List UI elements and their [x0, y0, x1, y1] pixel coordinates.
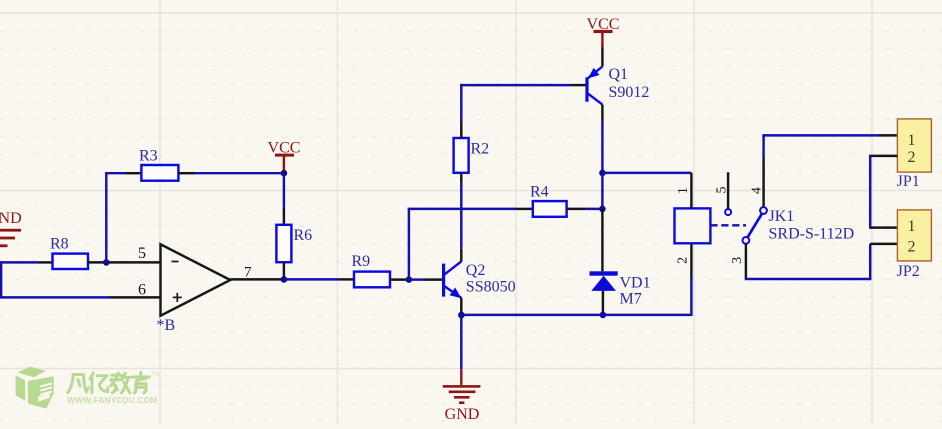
wire R4 right	[567, 208, 585, 210]
wire pin3 to JP2	[745, 278, 870, 280]
wire Q2 emitter to GND	[460, 315, 462, 369]
junction R4 node	[599, 206, 606, 213]
wire R8 to opamp	[88, 261, 161, 263]
wire top input to R8	[0, 261, 38, 263]
svg-text:WWW.FANYEDU.COM: WWW.FANYEDU.COM	[67, 395, 157, 405]
op-amp U *B	[161, 244, 231, 315]
svg-text:VCC: VCC	[587, 16, 620, 33]
svg-text:1: 1	[908, 132, 916, 149]
svg-text:SRD-S-112D: SRD-S-112D	[769, 226, 855, 243]
junction Q2 emitter node	[458, 312, 465, 319]
svg-text:GND: GND	[0, 210, 22, 227]
wire left edge vertical	[0, 261, 2, 298]
wire pin6 stub	[109, 296, 161, 298]
transistor Q1	[587, 67, 602, 105]
contact circle pin5	[725, 209, 731, 215]
wire R6 bottom	[283, 262, 285, 279]
wire node to VD1	[601, 209, 603, 271]
wire Q2 collector	[460, 248, 462, 261]
svg-text:R9: R9	[352, 253, 371, 270]
svg-text:2: 2	[908, 238, 916, 255]
wire collector node to relay pin1	[602, 172, 691, 174]
wire to relay pin2	[690, 278, 692, 316]
watermark logo	[16, 367, 161, 409]
relay JK1 coil	[675, 208, 711, 243]
relay pin4 wire	[762, 134, 764, 158]
wire R9 to node	[390, 278, 409, 280]
svg-text:GND: GND	[445, 406, 480, 423]
ground GND (left input)	[0, 210, 22, 247]
wire Q1 emitter to VCC	[601, 48, 603, 67]
svg-text:5: 5	[138, 245, 146, 262]
svg-text:JP2: JP2	[897, 263, 920, 280]
wire node up to R4 row	[408, 208, 410, 280]
transistor Q2	[444, 261, 462, 298]
svg-text:2: 2	[676, 257, 691, 264]
svg-text:3: 3	[730, 257, 745, 264]
wire JP2 pin1 stub	[870, 226, 897, 228]
wire pin4 to JP1	[763, 134, 880, 136]
svg-text:5: 5	[715, 187, 730, 194]
resistor R8	[53, 254, 89, 269]
wire VD1 anode down	[602, 291, 604, 315]
svg-text:R4: R4	[530, 184, 549, 201]
relay pin3 wire	[745, 244, 747, 279]
relay actuator dashed link	[710, 224, 746, 226]
wordmark strokes	[68, 372, 150, 393]
wire R3 left	[105, 172, 125, 174]
wire emitter row	[461, 314, 603, 316]
wire opamp output	[230, 278, 284, 280]
svg-text:S9012: S9012	[609, 84, 650, 101]
resistor R2	[454, 138, 469, 173]
wire R3 right	[178, 172, 194, 174]
resistor R4	[533, 201, 567, 217]
junction base node	[406, 276, 413, 283]
junction at R8 output	[103, 259, 110, 266]
svg-text:2: 2	[908, 149, 916, 166]
svg-text:R6: R6	[294, 227, 313, 244]
svg-text:M7: M7	[620, 290, 642, 307]
junction at VCC node	[281, 170, 288, 177]
power VCC (top)	[587, 16, 620, 48]
wire R2 top pin	[460, 121, 462, 138]
wire to Q1 base	[460, 84, 571, 86]
wire node to Q2 base	[409, 278, 424, 280]
diode VD1	[590, 271, 618, 291]
svg-text:JP1: JP1	[897, 173, 920, 190]
svg-text:TM: TM	[152, 373, 161, 379]
wire collector node down	[601, 173, 603, 209]
svg-text:6: 6	[138, 282, 146, 299]
wire R2 bottom pin	[460, 173, 462, 184]
svg-text:VD1: VD1	[620, 275, 651, 292]
svg-text:JK1: JK1	[769, 208, 795, 225]
junction at opamp output / R6	[281, 276, 288, 283]
wire bottom input	[0, 296, 109, 298]
connector JP1	[897, 119, 931, 172]
contact circle pin3	[743, 237, 750, 244]
relay pin5 stub	[727, 172, 729, 209]
svg-text:4: 4	[750, 187, 765, 194]
switch arm JK1	[747, 213, 762, 237]
svg-text:Q2: Q2	[466, 262, 486, 279]
wire VCC node down to R6	[283, 173, 285, 208]
svg-text:SS8050: SS8050	[466, 279, 516, 296]
wire Q2 emitter down	[460, 298, 462, 315]
wire JP1 pin2 stub	[870, 155, 897, 157]
wire Q1 collector down	[601, 105, 603, 121]
svg-text:*B: *B	[157, 317, 176, 334]
svg-text:R2: R2	[471, 140, 490, 157]
resistor R3	[141, 165, 178, 181]
wire output to R9	[284, 278, 339, 280]
svg-text:Q1: Q1	[609, 66, 629, 83]
svg-text:R3: R3	[139, 147, 158, 164]
svg-text:1: 1	[908, 218, 916, 235]
wire relay pin1	[690, 173, 692, 209]
wire vertical to R3	[105, 172, 107, 263]
wire JP1.2 to JP2.1	[869, 155, 871, 229]
resistor R9	[354, 272, 390, 288]
junction VD1 bottom	[600, 312, 607, 319]
resistor R6	[276, 225, 291, 262]
contact circle pin4	[760, 207, 767, 214]
svg-text:1: 1	[676, 187, 691, 194]
svg-text:R8: R8	[50, 236, 69, 253]
power VCC (left)	[268, 140, 301, 174]
junction collector node	[599, 170, 606, 177]
svg-text:VCC: VCC	[268, 140, 301, 157]
ground GND (bottom)	[443, 369, 481, 423]
connector JP2	[897, 210, 931, 261]
